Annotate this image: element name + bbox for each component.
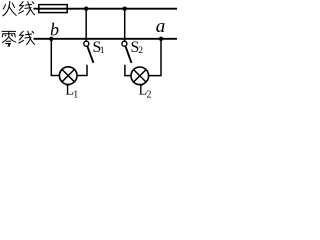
svg-text:2: 2	[147, 90, 152, 99]
svg-text:1: 1	[100, 46, 105, 56]
svg-text:b: b	[50, 20, 59, 40]
svg-text:1: 1	[73, 90, 78, 99]
svg-text:a: a	[156, 16, 166, 37]
svg-text:2: 2	[138, 46, 143, 56]
